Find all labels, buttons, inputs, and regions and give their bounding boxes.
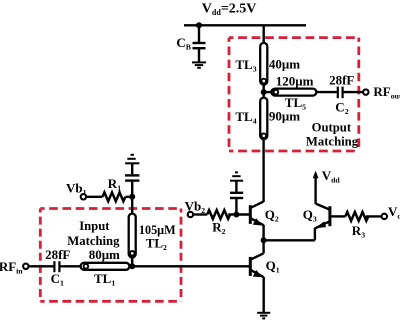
- svg-text:Input: Input: [79, 219, 110, 233]
- svg-text:Vdd=2.5V: Vdd=2.5V: [202, 1, 257, 16]
- svg-text:120μm: 120μm: [276, 73, 314, 88]
- svg-text:Matching: Matching: [67, 234, 120, 248]
- svg-text:80μm: 80μm: [89, 247, 120, 262]
- svg-text:28fF: 28fF: [329, 72, 354, 87]
- svg-text:40μm: 40μm: [269, 56, 300, 71]
- svg-text:90μm: 90μm: [269, 108, 300, 123]
- svg-text:28fF: 28fF: [45, 247, 70, 262]
- svg-text:Output: Output: [312, 121, 352, 135]
- svg-text:Matching: Matching: [306, 134, 359, 148]
